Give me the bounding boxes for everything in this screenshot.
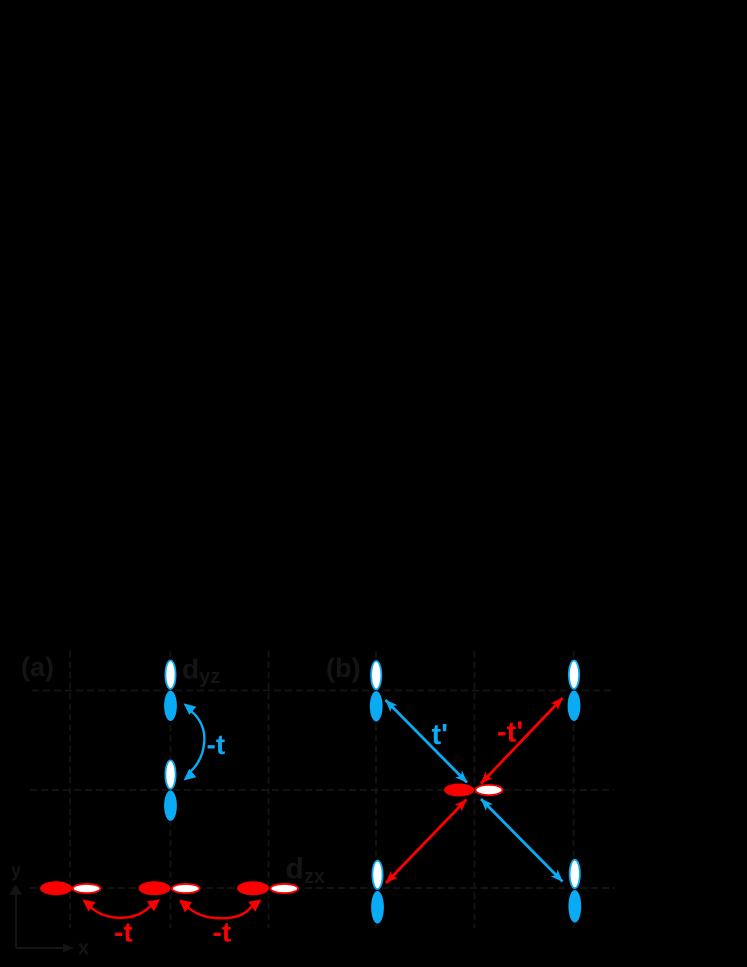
- dashed grid vertical line x=70: [69, 651, 71, 928]
- svg-text:-t: -t: [207, 729, 226, 760]
- d_yz orbital site B top-right (574,690.3): [568, 661, 581, 722]
- d_yz orbital site B bottom-left (377.5,890.5): [371, 861, 384, 924]
- blue hopping arrow t' top-left in panel (b): [386, 700, 468, 783]
- red hopping arrow -t' top-right in panel (b): [481, 698, 563, 784]
- svg-text:x: x: [78, 938, 89, 960]
- red hopping arrow bottom-left in panel (b): [386, 800, 467, 884]
- axis x: [16, 938, 89, 960]
- svg-text:-t: -t: [213, 917, 232, 948]
- dashed grid vertical line x=170: [170, 651, 172, 928]
- svg-text:t': t': [432, 719, 449, 751]
- d_zx orbital at center of panel (b) (474.5,790): [444, 784, 503, 797]
- d_zx orbital chain site 3 (268.5,888.3): [237, 881, 298, 895]
- svg-text:-t: -t: [114, 917, 133, 948]
- svg-text:-t': -t': [497, 717, 523, 749]
- svg-text:(a): (a): [21, 652, 54, 682]
- dashed grid vertical line x=474: [474, 651, 476, 928]
- dashed grid vertical line x=376: [375, 651, 377, 928]
- d_yz orbital site B bottom-right (574.8,889.5): [568, 860, 581, 923]
- dashed grid vertical line x=574: [573, 651, 575, 928]
- svg-text:(b): (b): [326, 653, 360, 683]
- svg-text:y: y: [11, 861, 21, 881]
- dashed grid horizontal line y=888: [30, 887, 615, 889]
- blue hopping arrow bottom-right in panel (b): [481, 799, 563, 882]
- dashed grid vertical line x=268: [268, 651, 270, 928]
- d_yz orbital site B top-left (376.2,690.8): [370, 661, 383, 722]
- red curved hopping arrow 2 -t in panel (a): [179, 900, 261, 919]
- blue curved hopping arrow -t in panel (a): [184, 703, 205, 780]
- d_zx orbital chain site 1 (71,888.3): [40, 881, 100, 895]
- d_yz orbital site A1 (170.5,690.3): [164, 661, 177, 722]
- red curved hopping arrow 1 -t in panel (a): [83, 899, 161, 918]
- axis y: [9, 861, 22, 949]
- d_yz orbital site A2 (170.5,790.2): [164, 760, 177, 821]
- d_zx orbital chain site 2 (170.5,888.3): [139, 881, 200, 895]
- dashed grid horizontal line y=690: [32, 690, 613, 692]
- dashed grid horizontal line y=790: [30, 789, 614, 791]
